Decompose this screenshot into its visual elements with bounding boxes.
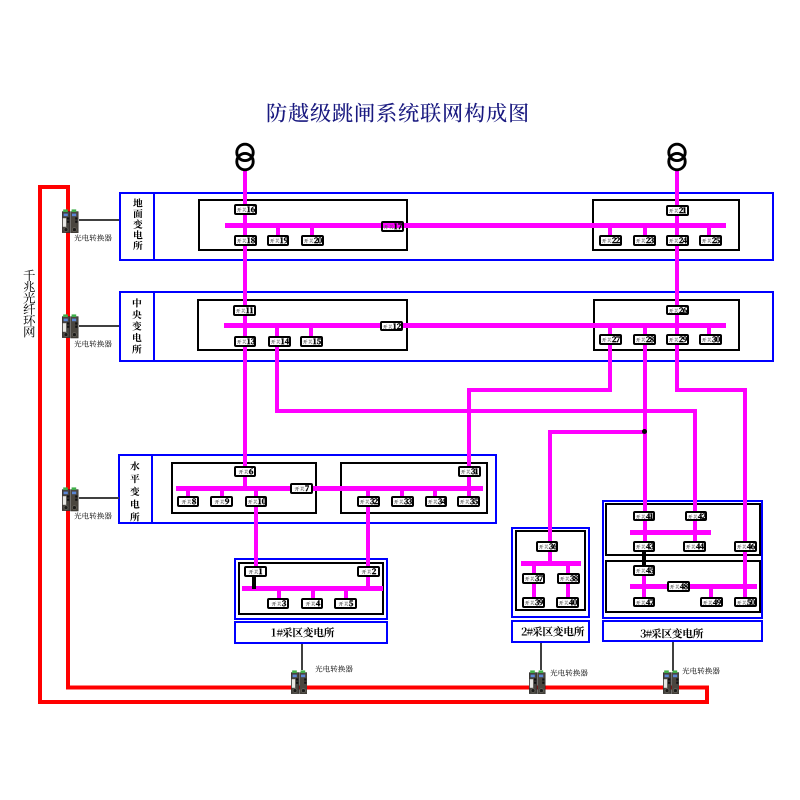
label: 2#采区变电所 — [521, 626, 584, 637]
label: 光电转换器 of converter 5 — [550, 669, 588, 677]
busbar section box: central substation right — [593, 299, 740, 351]
wire: converter 3 to horizontal substation — [79, 497, 120, 499]
divider: horizontal substation label column — [151, 454, 153, 524]
substation box: central substation (中央变电所) row — [119, 291, 774, 362]
wire: transformer T1 feeder column through switches 16,18,11,13,6 — [243, 170, 247, 492]
optical-electrical converter 3 (光电转换器) — [62, 487, 79, 512]
wire: bus stub to switch 34 — [433, 489, 437, 500]
label: 光电转换器 of converter 3 — [74, 512, 112, 520]
optical-electrical converter 2 (光电转换器) — [62, 314, 79, 339]
busbar section box: mining area 1 — [238, 562, 384, 615]
substation box: horizontal substation (水平变电所) row — [118, 454, 496, 524]
switch 开关37 — [522, 573, 545, 584]
switch 开关4 — [301, 598, 324, 609]
switch 开关20 — [301, 235, 324, 246]
label box: 1#采区变电所 — [234, 621, 389, 644]
label box: 3#采区变电所 — [602, 620, 764, 642]
switch 开关49 — [700, 597, 723, 608]
switch 开关18 — [234, 235, 257, 246]
switch 开关40 — [556, 597, 579, 608]
label box: 2#采区变电所 — [511, 620, 590, 644]
busbar section box: horizontal substation left — [171, 462, 317, 514]
switch 开关2 — [357, 566, 380, 577]
switch 开关23 — [633, 235, 656, 246]
wire: bus stub to switch 4 — [311, 588, 315, 601]
switch 开关14 — [268, 336, 291, 347]
wire: mining area 1 busbar — [242, 586, 382, 591]
wire: mining area 2 feed down to switch 36 — [548, 430, 552, 566]
wire: converter 2 to central substation — [79, 325, 119, 327]
switch 开关15 — [300, 336, 323, 347]
wire: mining area 3 label box to converter 6 — [672, 642, 674, 671]
title: 防越级跳闸系统联网构成图 — [266, 102, 530, 125]
switch 开关6 — [234, 466, 257, 477]
switch 开关30 — [699, 334, 722, 345]
junction node on switch 28 feeder — [642, 429, 647, 434]
wire: mining area 2 busbar — [521, 561, 581, 566]
switch 开关21 — [666, 205, 689, 216]
busbar section box: horizontal substation right — [340, 462, 488, 514]
link: switch 43 to switch 45 (black stub) — [642, 550, 646, 569]
label: 中央变电所 (central substation) — [132, 298, 142, 355]
wire: bus stub to switch 30 — [707, 326, 711, 337]
wire: switch 14 feeder horizontal run to switch 42 riser — [275, 409, 697, 413]
wire: mining area 3 lower busbar — [630, 584, 757, 589]
optical-electrical converter 6 (光电转换器) — [663, 670, 680, 695]
wire: feeder through switch 32 down through switch 2 to bus — [366, 489, 370, 591]
wire: central substation busbar — [224, 323, 726, 328]
wire: bus stub to switch 23 — [643, 225, 647, 240]
wire: bus stub to switch 8 — [186, 489, 190, 500]
label: 光电转换器 of converter 4 — [315, 665, 353, 673]
switch 开关48 — [667, 581, 690, 592]
label: 3#采区变电所 — [640, 628, 703, 639]
switch 开关34 — [425, 496, 448, 507]
link: switch 1 to busbar (black stub) — [252, 575, 256, 589]
switch 开关36 — [536, 541, 559, 552]
switch 开关22 — [599, 235, 622, 246]
label: 水平变电所 (horizontal substation) — [130, 461, 140, 522]
switch 开关1 — [244, 566, 267, 577]
divider: central substation label column — [153, 291, 155, 362]
wire: switch 14 feeder down — [275, 326, 279, 413]
wire: switch 27 feeder down — [608, 326, 612, 392]
wire: bus stub to switch 25 — [707, 225, 711, 240]
switch 开关38 — [557, 573, 580, 584]
switch 开关3 — [267, 598, 290, 609]
substation box: mining area 2 substation — [511, 527, 590, 619]
busbar section box: ground substation left — [198, 199, 409, 252]
divider: ground substation label column — [153, 192, 155, 261]
wire: transformer T2 feeder column through switches 21,24,26,29 — [675, 170, 679, 393]
switch 开关12 — [380, 321, 403, 332]
switch 开关41 — [633, 511, 656, 522]
switch 开关29 — [666, 334, 689, 345]
wire: mining area 3 upper busbar — [630, 530, 711, 535]
label: 1#采区变电所 — [271, 627, 334, 638]
wire: bus stub to switch 22 — [608, 225, 612, 240]
transformer T1 — [235, 140, 255, 172]
substation box: mining area 3 substation — [602, 500, 764, 620]
busbar section box: central substation left — [197, 299, 408, 351]
transformer T2 — [667, 140, 687, 172]
wire: feeder through switch 37 to switch 39 — [532, 564, 536, 601]
optical-electrical converter 5 (光电转换器) — [529, 670, 546, 695]
switch 开关45 — [633, 565, 656, 576]
busbar section box: ground substation right — [592, 199, 739, 251]
switch 开关25 — [699, 235, 722, 246]
wire: bus stub to switch 33 — [400, 489, 404, 500]
busbar section box: mining area 2 — [515, 530, 586, 611]
wire: switch 45 to bus to switch 47 — [642, 570, 646, 600]
substation box: ground substation (地面变电所) row — [119, 192, 774, 261]
wire: mining area 2 label box to converter 5 — [540, 643, 542, 670]
substation box: mining area 1 substation — [234, 558, 389, 620]
wire: riser down through switches 31,35 — [467, 388, 471, 504]
switch 开关13 — [234, 336, 257, 347]
label: 地面变电所 (ground substation) — [133, 198, 143, 251]
wire: feeder through switch 10 down to switch 1 — [254, 489, 258, 571]
wire: branch from junction to mining area 2 feed — [548, 430, 646, 434]
wire: elbow from switch 27 to switch 31 riser — [467, 388, 612, 392]
label: 光电转换器 of converter 2 — [74, 340, 112, 348]
switch 开关50 — [734, 597, 757, 608]
wire: mining area 1 label box to converter 4 — [301, 644, 303, 670]
label: 千兆光纤环网 (gigabit fiber ring) — [23, 269, 36, 339]
wire: bus stub to switch 19 — [276, 225, 280, 240]
switch 开关47 — [633, 597, 656, 608]
label: 光电转换器 of converter 6 — [682, 667, 720, 675]
switch 开关46 — [734, 541, 757, 552]
wire: bus stub to switch 5 — [344, 588, 348, 601]
switch 开关26 — [666, 305, 689, 316]
switch 开关43 — [633, 541, 656, 552]
wire: converter 1 to ground substation — [79, 219, 120, 221]
switch 开关17 — [381, 221, 404, 232]
wire: horizontal substation busbar — [176, 486, 483, 491]
wire: bus stub to switch 15 — [309, 326, 313, 337]
wire: busbar segment visible across switch 17 box — [383, 223, 402, 228]
busbar section box: mining area 3 upper — [605, 503, 761, 556]
switch 开关16 — [234, 204, 257, 215]
wire: right riser down through switches 46,50 — [743, 388, 747, 602]
wire: bus stub to switch 9 — [220, 489, 224, 500]
switch 开关9 — [210, 496, 233, 507]
wire: bus stub to switch 20 — [310, 225, 314, 240]
wire: elbow from switch 29 column to right riser — [675, 388, 747, 392]
switch 开关33 — [391, 496, 414, 507]
switch 开关24 — [666, 235, 689, 246]
switch 开关31 — [458, 466, 481, 477]
switch 开关10 — [245, 496, 268, 507]
switch 开关27 — [599, 334, 622, 345]
busbar section box: mining area 3 lower — [605, 560, 761, 613]
wire: switch 28 feeder down through switches 41,43 — [643, 326, 647, 549]
switch 开关35 — [457, 496, 480, 507]
switch 开关28 — [633, 334, 656, 345]
switch 开关7 — [290, 483, 313, 494]
switch 开关19 — [267, 235, 290, 246]
wire: bus stub to switch 49 — [709, 587, 713, 600]
wire: riser down through switches 42,44 — [693, 409, 697, 549]
optical-electrical converter 1 (光电转换器) — [62, 209, 79, 234]
wire: ground substation busbar — [225, 223, 726, 228]
wire: bus stub to switch 3 — [277, 588, 281, 601]
switch 开关44 — [683, 541, 706, 552]
switch 开关42 — [685, 511, 708, 522]
switch 开关32 — [357, 496, 380, 507]
switch 开关8 — [177, 496, 200, 507]
wire: feeder through switch 38 to switch 40 — [566, 564, 570, 601]
switch 开关39 — [522, 597, 545, 608]
label: 光电转换器 of converter 1 — [74, 234, 112, 242]
optical-electrical converter 4 (光电转换器) — [291, 670, 308, 695]
switch 开关11 — [233, 305, 256, 316]
switch 开关5 — [334, 598, 357, 609]
